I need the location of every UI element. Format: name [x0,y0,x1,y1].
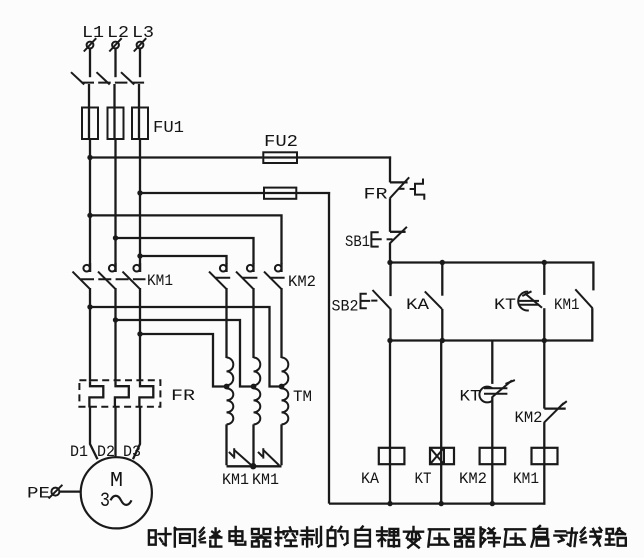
node phase2-KM2 junction [113,235,118,240]
contactor KM1 star contact 2 stub [258,452,263,457]
node bottom bus KM2 [490,501,495,506]
contactor KM1 star contact 1 bar [233,448,235,458]
svg-text:FU1: FU1 [153,119,184,138]
wire coil KM1 bottom [543,464,545,505]
svg-text:L3: L3 [132,24,154,43]
wire coil KA bottom [389,464,391,503]
wire phase1 to KM2 pole3 [90,215,282,263]
contactor contact KM2 NC interlock [543,341,545,409]
timer contact KT delayed close lower [492,380,512,397]
contactor KM2 linkage dashed bar [215,277,286,279]
wire SB1 to bus1 [389,243,391,264]
wire TM winding3 bottom leg [255,424,282,466]
fuse FU2 lower [264,188,296,199]
wire motor lead D1 [90,407,98,460]
node phase1-KM2 junction [87,213,92,218]
terminal PE circle [51,488,59,496]
terminal L1 slash [84,38,96,51]
wire L2 drop to switch [114,48,116,77]
node bus2 KA junction [440,338,445,343]
wire control right riser top [389,156,391,182]
motor M circle [81,457,152,528]
transformer TM winding 1 upper humps [227,358,234,386]
transformer TM winding 1 tap node [224,384,230,390]
svg-text:FU2: FU2 [264,133,298,152]
wire coil KM2 bottom [491,464,493,503]
node bottom bus KA [387,501,392,506]
node bus2 KT junction [542,338,547,343]
wire KT lower to KM2 coil [491,397,493,449]
wire QS pole 1 lower [88,84,90,108]
svg-text:KM1: KM1 [554,296,580,314]
contactor KM1 main contact pole 2 [109,265,116,272]
wire KM1 contact to bus2 [591,308,593,341]
svg-text:PE: PE [27,485,50,503]
wire KT coil branch [440,341,442,449]
wire QS pole 2 lower [113,84,115,108]
fuse FU1 element 1 [82,108,98,140]
wire QS pole 3 lower [138,84,140,108]
wire PE to motor [59,490,81,492]
contactor KM1 star contact 2 bar [262,448,264,458]
svg-text:KM1: KM1 [222,471,249,489]
node bottom bus KT [439,501,444,506]
timer contact KT delayed NO upper [543,263,545,295]
coil KM1 [532,448,558,464]
fuse FU2 upper [263,152,297,163]
wire L3 drop to switch [139,48,141,77]
svg-text:M: M [110,470,123,493]
node star point [250,463,256,469]
wire KM2 NC to KM1 coil [543,422,545,448]
terminal L2 circle [112,42,119,49]
wire phase2 to TM tap2 [116,320,254,387]
wire TM winding2 bottom leg [252,424,254,466]
contactor KM2 main contact pole 2 [247,265,254,272]
caption text (drawn hanzi strokes) [149,526,626,548]
coil KM2 [480,448,506,464]
wire fuse2 line lower [140,192,330,194]
wire L1 drop to switch [89,48,91,77]
node bus2 SB2 junction [387,338,392,343]
fuse FU1 element 3 [132,108,148,140]
wire phase2 FU1 to KM1 [114,139,116,272]
wire FU2 line upper [90,156,262,158]
wire KT contact to bus2 [543,308,545,341]
wire motor lead D3 [133,407,140,460]
relay contact KA NO [441,263,443,296]
thermal relay FR heater element 1 [89,381,103,407]
wire phase3 FU1 to KM1 [139,139,141,272]
contactor KM2 main contact pole 3 [275,265,282,272]
coil KT [430,448,454,464]
terminal PE slash [49,485,63,499]
fuse FU1 element 2 [108,108,124,140]
wire phase2 to KM2 pole2 [116,238,254,264]
svg-text:KA: KA [361,470,379,488]
svg-text:KM2: KM2 [288,273,316,291]
contactor KM2 main contact pole 1 [220,265,227,272]
wire KA contact to bus2 [441,309,443,342]
svg-text:SB1: SB1 [345,233,370,251]
wire phase1 FU1 to KM1 [89,139,91,272]
coil KT cross box [430,448,444,464]
transformer TM winding 2 upper humps [254,358,261,386]
svg-text:3: 3 [100,490,110,513]
svg-text:KM2: KM2 [515,409,543,427]
node phase3 tap row junction [137,331,142,336]
svg-text:KT: KT [460,388,481,406]
switch QS pole 3 blade [121,72,134,84]
contactor KM1 main contact pole 1 [83,265,90,272]
svg-text:KM2: KM2 [459,470,487,488]
wire KM2 pole 1 to TM winding [225,288,227,358]
thermal relay FR heater element 2 [115,381,129,407]
svg-text:KM1: KM1 [252,471,279,489]
contactor contact KM1 NO self-hold [592,261,594,290]
svg-text:L1: L1 [82,24,104,43]
wire phase2 KM1 to FR heater [114,288,116,381]
terminal L2 slash [109,38,121,51]
wire motor lead D2 [114,407,116,458]
node phase3-KM2 junction [137,253,142,258]
wire KM2 pole 2 to TM winding [252,288,254,358]
node bus1 SB2 junction [387,260,392,265]
thermal relay FR dashed box [79,380,160,407]
svg-text:KT: KT [494,296,516,314]
wire TM winding1 bottom leg [227,424,253,466]
transformer TM winding 3 tap node [279,384,285,390]
svg-text:SB2: SB2 [332,298,359,316]
wire KM2 branch upper [491,341,493,384]
svg-text:KM1: KM1 [513,470,539,488]
wire phase3 to KM2 pole1 [140,256,227,264]
terminal L3 slash [134,38,146,51]
wire KM2 pole 3 to TM winding [280,288,282,358]
transformer TM winding 2 tap node [251,384,257,390]
node phase1 tap row junction [87,304,92,309]
svg-text:FR: FR [171,387,195,405]
motor tilde [111,496,132,505]
contactor KM1 main contact pole 3 [133,265,140,272]
terminal L3 circle [137,42,144,49]
thermal relay FR NC contact [390,181,408,183]
wire KA coil branch [389,341,391,449]
wire phase3 KM1 to FR heater [139,288,141,381]
node phase3-fuse2 junction [137,190,142,195]
transformer TM winding 3 lower humps [282,388,289,424]
switch QS pole 1 blade [71,72,84,84]
wire phase1 KM1 to FR heater [89,288,91,381]
transformer TM winding 1 lower humps [227,388,234,424]
wire control bus2 [389,339,593,341]
switch QS pole 2 blade [97,72,110,84]
svg-text:KM1: KM1 [147,272,173,290]
contactor KM1 star contact 2 blade [264,450,280,465]
node phase1-FU2 junction [87,155,92,160]
wire coil KT bottom [440,464,442,503]
contactor KM1 star contact 1 blade [235,450,253,466]
switch QS linkage dashed bar [82,82,146,84]
svg-text:D1: D1 [70,443,88,461]
wire control bus1 [389,261,593,263]
button SB1 NC contact [390,231,406,233]
contactor KM1 star contact 1 stub [229,452,234,457]
svg-text:FR: FR [364,186,388,204]
node phase2 tap row junction [113,317,118,322]
coil KA [379,448,405,464]
wire control left riser [328,192,330,504]
node bus1 KA junction [440,260,445,265]
svg-text:TM: TM [293,388,312,406]
node bus1 KT junction [542,260,547,265]
transformer TM winding 3 upper humps [282,358,289,386]
wire control bottom bus [329,502,545,504]
svg-text:KA: KA [406,296,429,314]
wire phase1 to TM tap3 [90,307,282,387]
svg-text:L2: L2 [107,24,129,43]
button SB2 NO contact [389,263,391,297]
terminal L1 circle [87,42,94,49]
wire FR to SB1 [389,198,391,232]
wire SB2 to bus2 [389,309,391,342]
contactor KM1 linkage dashed bar [81,278,146,280]
svg-text:KT: KT [415,470,432,488]
wire phase3 to TM tap1 [140,334,227,387]
thermal relay FR heater element 3 [139,381,153,407]
transformer TM winding 2 lower humps [254,388,261,424]
